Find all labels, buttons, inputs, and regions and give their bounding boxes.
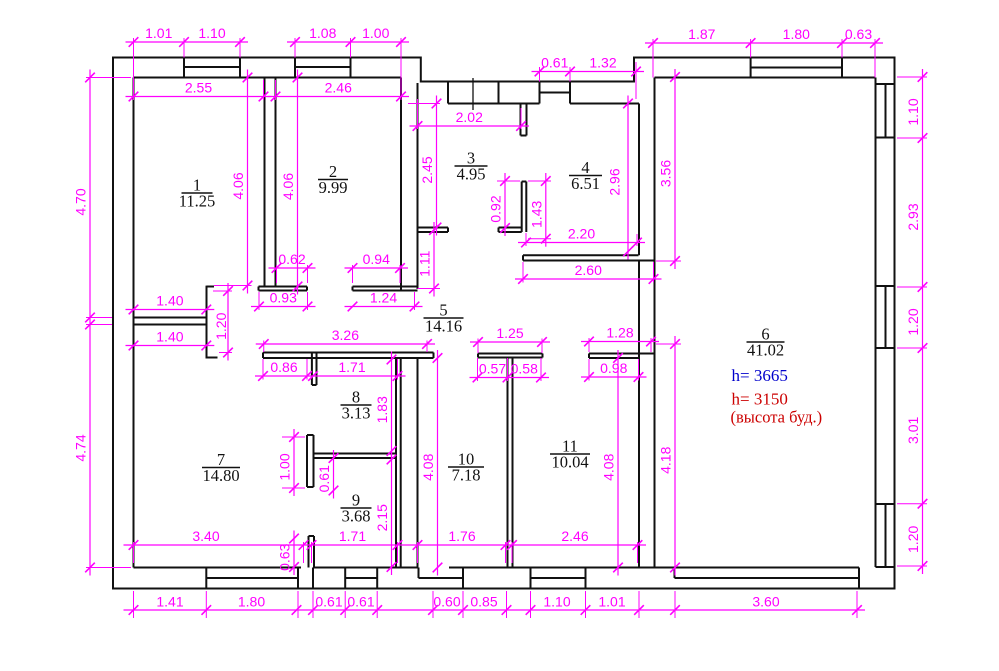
svg-text:6.51: 6.51 (571, 174, 600, 193)
svg-text:0.94: 0.94 (363, 251, 390, 267)
dimension 1.25 (470, 341, 550, 343)
dimension ext lines 0.94 (352, 265, 354, 283)
svg-text:0.61: 0.61 (347, 594, 374, 610)
wall room 6 top inner face (655, 77, 876, 79)
wall divider 3-4 foot (499, 228, 522, 233)
dimension ext line room2 width (275, 80, 277, 100)
dimension 1.40 lower (126, 345, 215, 347)
dimension ext line 4.06 room1 bottom (214, 285, 252, 287)
dimension chain 0.57/0.58 (470, 377, 550, 379)
svg-text:1.83: 1.83 (374, 396, 390, 423)
dimension 0.93 (251, 306, 316, 308)
dimension 1.83 room 8 (391, 352, 393, 460)
svg-text:7.18: 7.18 (452, 466, 481, 485)
svg-text:1.11: 1.11 (417, 250, 433, 276)
svg-text:41.02: 41.02 (747, 341, 784, 360)
svg-text:0.63: 0.63 (277, 543, 293, 570)
window W2 room 2 top (295, 58, 351, 78)
dimension 1.28 (581, 341, 659, 343)
svg-text:4.08: 4.08 (601, 453, 617, 480)
svg-text:h= 3150: h= 3150 (732, 390, 788, 409)
svg-text:0.86: 0.86 (270, 359, 297, 375)
dimension ext lines right chain (897, 76, 927, 78)
svg-text:2.20: 2.20 (568, 226, 595, 242)
svg-text:2.96: 2.96 (607, 168, 623, 195)
wall jamb rooms 3-4 top (521, 104, 527, 136)
wall right inner face (875, 78, 877, 568)
dimension ext lines left chain (86, 77, 131, 79)
dimension chain 1.01/1.10 (126, 41, 249, 43)
svg-text:3.60: 3.60 (752, 594, 779, 610)
wall divider rooms 10-11 (508, 358, 513, 568)
svg-text:1.43: 1.43 (528, 201, 544, 228)
dimension 2.15 room 9 (391, 452, 393, 576)
svg-text:1.10: 1.10 (905, 98, 921, 125)
dimension chain right 1.10/2.93/1.20/3.01/1.20 (922, 69, 924, 574)
svg-text:9.99: 9.99 (319, 178, 348, 197)
wall corridor bottom (263, 353, 434, 359)
wall bottom inner face (134, 567, 655, 569)
wall stub 0.63 room 9 south (309, 536, 315, 568)
dimension ext lines top-left chain (133, 38, 135, 100)
dimension ext lines 1.28 (588, 338, 590, 352)
window W11 bottom 1.10 (531, 568, 586, 589)
svg-text:2.15: 2.15 (374, 504, 390, 531)
svg-text:4.08: 4.08 (420, 453, 436, 480)
svg-text:1.10: 1.10 (543, 594, 570, 610)
wall room 10 west (417, 358, 419, 568)
dimension ext line room1 width (263, 80, 265, 100)
svg-text:3.26: 3.26 (332, 327, 359, 343)
door bottom room 9 (313, 568, 345, 589)
svg-text:0.63: 0.63 (845, 26, 872, 42)
wall room 3 bottom bar (418, 228, 449, 233)
svg-text:h= 3665: h= 3665 (732, 366, 788, 385)
svg-text:0.92: 0.92 (488, 195, 504, 222)
svg-text:1.80: 1.80 (238, 594, 265, 610)
dimension ext lines 2.20 (525, 233, 527, 246)
wall left inner face (133, 78, 135, 568)
dimension ext lines 0.62 (276, 265, 278, 283)
dimension 4.06 room 1 (247, 70, 249, 294)
window W7 right bottom (876, 504, 895, 567)
svg-text:2.45: 2.45 (419, 156, 435, 183)
wall room 2 bottom west segment (259, 287, 308, 291)
wall rooms 8-9 east (396, 358, 401, 568)
svg-text:0.85: 0.85 (470, 594, 497, 610)
dimension chain 0.61/1.32 (532, 71, 645, 73)
dimension 0.61 stub (333, 450, 335, 499)
window W6 right middle (876, 286, 895, 348)
svg-text:0.60: 0.60 (433, 594, 460, 610)
svg-text:0.57: 0.57 (479, 361, 506, 377)
svg-text:14.80: 14.80 (202, 466, 239, 485)
svg-text:1.00: 1.00 (362, 25, 389, 41)
svg-text:4.18: 4.18 (658, 446, 674, 473)
dimension ext lines 1.25 (477, 339, 479, 354)
dimension 0.92 (504, 173, 506, 236)
dimension 0.94 (345, 267, 409, 269)
wall room 6 west inner line (654, 78, 656, 568)
svg-text:2.02: 2.02 (456, 109, 483, 125)
dimension ext line 1.11 (418, 288, 441, 290)
svg-text:1.71: 1.71 (339, 528, 366, 544)
svg-text:3.56: 3.56 (658, 160, 674, 187)
svg-text:4.74: 4.74 (73, 434, 89, 461)
dimension ext lines 2.02 (417, 99, 419, 129)
wall bar rooms 10-11 top (478, 354, 543, 358)
wall room 6 bottom (655, 568, 860, 589)
svg-text:2.93: 2.93 (905, 203, 921, 230)
svg-text:4.06: 4.06 (230, 172, 246, 199)
svg-text:4.95: 4.95 (457, 165, 486, 184)
wall pilaster room 1-7 (207, 286, 218, 359)
wall divider rooms 1-2 (265, 78, 276, 287)
wall corridor west pair (rooms 2/3-5) (401, 78, 418, 291)
dimension 2.96 room 4 (627, 96, 629, 260)
dimension 1.43 (545, 173, 547, 247)
wall room 11 top segment 0.98 (589, 354, 655, 359)
door entrance top (box) (448, 82, 499, 104)
svg-text:1.25: 1.25 (496, 325, 523, 341)
svg-text:1.76: 1.76 (448, 528, 475, 544)
dimension chain 1.08/1.00 (287, 41, 409, 43)
svg-text:1.08: 1.08 (309, 25, 336, 41)
dimension 2.55 room 1 (126, 96, 272, 98)
svg-text:1.28: 1.28 (606, 325, 633, 341)
svg-text:1.10: 1.10 (198, 25, 225, 41)
svg-text:0.61: 0.61 (315, 594, 342, 610)
dimension 4.06 room 2 (297, 70, 299, 295)
mark entrance axis (472, 78, 474, 110)
dimension 1.11 (433, 222, 435, 297)
svg-text:3.68: 3.68 (342, 507, 371, 526)
dimension 1.24 (345, 306, 423, 308)
dimension ext lines interior widths (133, 542, 135, 563)
dimension 3.26 corridor (256, 343, 435, 345)
dimension 2.20 room 4 (518, 242, 645, 244)
wall room 2 bottom east segment (353, 287, 418, 291)
dimension chain bottom outside (124, 609, 866, 611)
dimension 1.20 pilaster (227, 283, 229, 361)
svg-text:1.20: 1.20 (905, 526, 921, 553)
svg-text:0.58: 0.58 (511, 361, 538, 377)
dimension ext lines 3.26 (263, 341, 265, 353)
dimension 0.98 (581, 376, 647, 378)
window W1 room 1 top (184, 58, 240, 78)
dimension 4.18 (674, 336, 676, 576)
svg-text:0.61: 0.61 (541, 55, 568, 71)
svg-text:0.61: 0.61 (316, 465, 332, 492)
dimension 1.40 upper (126, 309, 215, 311)
svg-text:1.01: 1.01 (145, 25, 172, 41)
dimension ext lines bottom chain (133, 591, 135, 618)
dimension ext lines top-right chain (652, 39, 654, 78)
svg-text:4.70: 4.70 (73, 188, 89, 215)
dimension ext lines room2 top chain (294, 38, 296, 58)
svg-text:11.25: 11.25 (179, 192, 216, 211)
window W4 room 6 top (751, 58, 842, 78)
window W9 bottom 0.61 (345, 568, 377, 589)
dimension chain 4.70/4.74 (89, 70, 91, 576)
window W3 top 0.61 (540, 82, 571, 104)
window W8 bottom 1.80 (206, 568, 298, 589)
dimension 0.63 room 9 south (293, 531, 295, 576)
dimension chain 3.40/1.71/1.76/2.46 interior (124, 544, 647, 546)
dimension 2.45 room 3 (436, 96, 438, 236)
dimension 1.00 stub (293, 429, 295, 496)
svg-text:3.01: 3.01 (905, 417, 921, 444)
svg-text:14.16: 14.16 (425, 317, 462, 336)
svg-text:2.60: 2.60 (575, 262, 602, 278)
wall room 6 west outer line (638, 104, 640, 568)
wall stub 1.00 rooms 7-9 (307, 435, 314, 487)
svg-text:1.32: 1.32 (589, 55, 616, 71)
window W5 right top (876, 84, 895, 138)
wall divider rooms 1-7 (134, 318, 207, 325)
svg-text:1.01: 1.01 (598, 594, 625, 610)
dimension ext lines 0.86/1.71 (262, 359, 264, 380)
svg-text:0.62: 0.62 (278, 251, 305, 267)
svg-text:4.06: 4.06 (280, 173, 296, 200)
dimension 2.46 room 2 (268, 96, 410, 98)
wall divider rooms 3-4 (522, 182, 527, 233)
dimension ext lines 0.98 (588, 359, 590, 381)
svg-text:2.46: 2.46 (561, 528, 588, 544)
dimension chain 1.87/1.80/0.63 (645, 42, 883, 44)
wall top inner face room 1-2 (134, 77, 402, 79)
svg-text:1.80: 1.80 (783, 26, 810, 42)
svg-text:1.20: 1.20 (213, 312, 229, 339)
wall divider rooms 8-9 (314, 454, 397, 459)
svg-text:1.41: 1.41 (156, 594, 183, 610)
dimension 0.62 (269, 267, 316, 269)
dimension ext lines 0.57/0.58 (477, 358, 479, 381)
svg-text:3.40: 3.40 (192, 528, 219, 544)
svg-text:(высота буд.): (высота буд.) (731, 408, 823, 427)
svg-text:1.40: 1.40 (156, 329, 183, 345)
wall recessed top inner face rooms 3-4 (448, 103, 639, 105)
svg-text:3.13: 3.13 (342, 404, 371, 423)
dimension ext lines 1.00 stub (282, 436, 305, 438)
dimension ext lines 2.60 (522, 262, 524, 283)
svg-text:1.20: 1.20 (905, 308, 921, 335)
dimension 2.02 room 3 (410, 125, 530, 127)
dimension 2.60 (515, 278, 662, 280)
dimension ext line 1.24 (414, 292, 416, 310)
svg-text:1.24: 1.24 (370, 290, 397, 306)
svg-text:2.55: 2.55 (185, 80, 212, 96)
svg-text:2.46: 2.46 (325, 80, 352, 96)
dimension 0.86 and 1.71 room 8 (255, 375, 406, 377)
window W10 bottom 0.60 (419, 568, 464, 589)
svg-text:1.87: 1.87 (688, 26, 715, 42)
svg-text:1.40: 1.40 (156, 293, 183, 309)
dimension ext lines 0.93 (258, 292, 260, 310)
svg-text:0.93: 0.93 (270, 290, 297, 306)
svg-text:1.71: 1.71 (338, 359, 365, 375)
svg-text:10.04: 10.04 (551, 453, 588, 472)
svg-text:1.00: 1.00 (277, 453, 293, 480)
dimension ext lines 0.61/1.32 chain (539, 67, 541, 82)
dimension 3.56 (674, 69, 676, 269)
dimension 4.08 room 11 (617, 350, 619, 576)
wall exterior outline (outer faces) (113, 58, 895, 589)
dimension 4.08 room 10 (437, 350, 439, 576)
wall room 4 bottom (523, 255, 655, 260)
wall divider rooms 7-8 (312, 353, 317, 386)
